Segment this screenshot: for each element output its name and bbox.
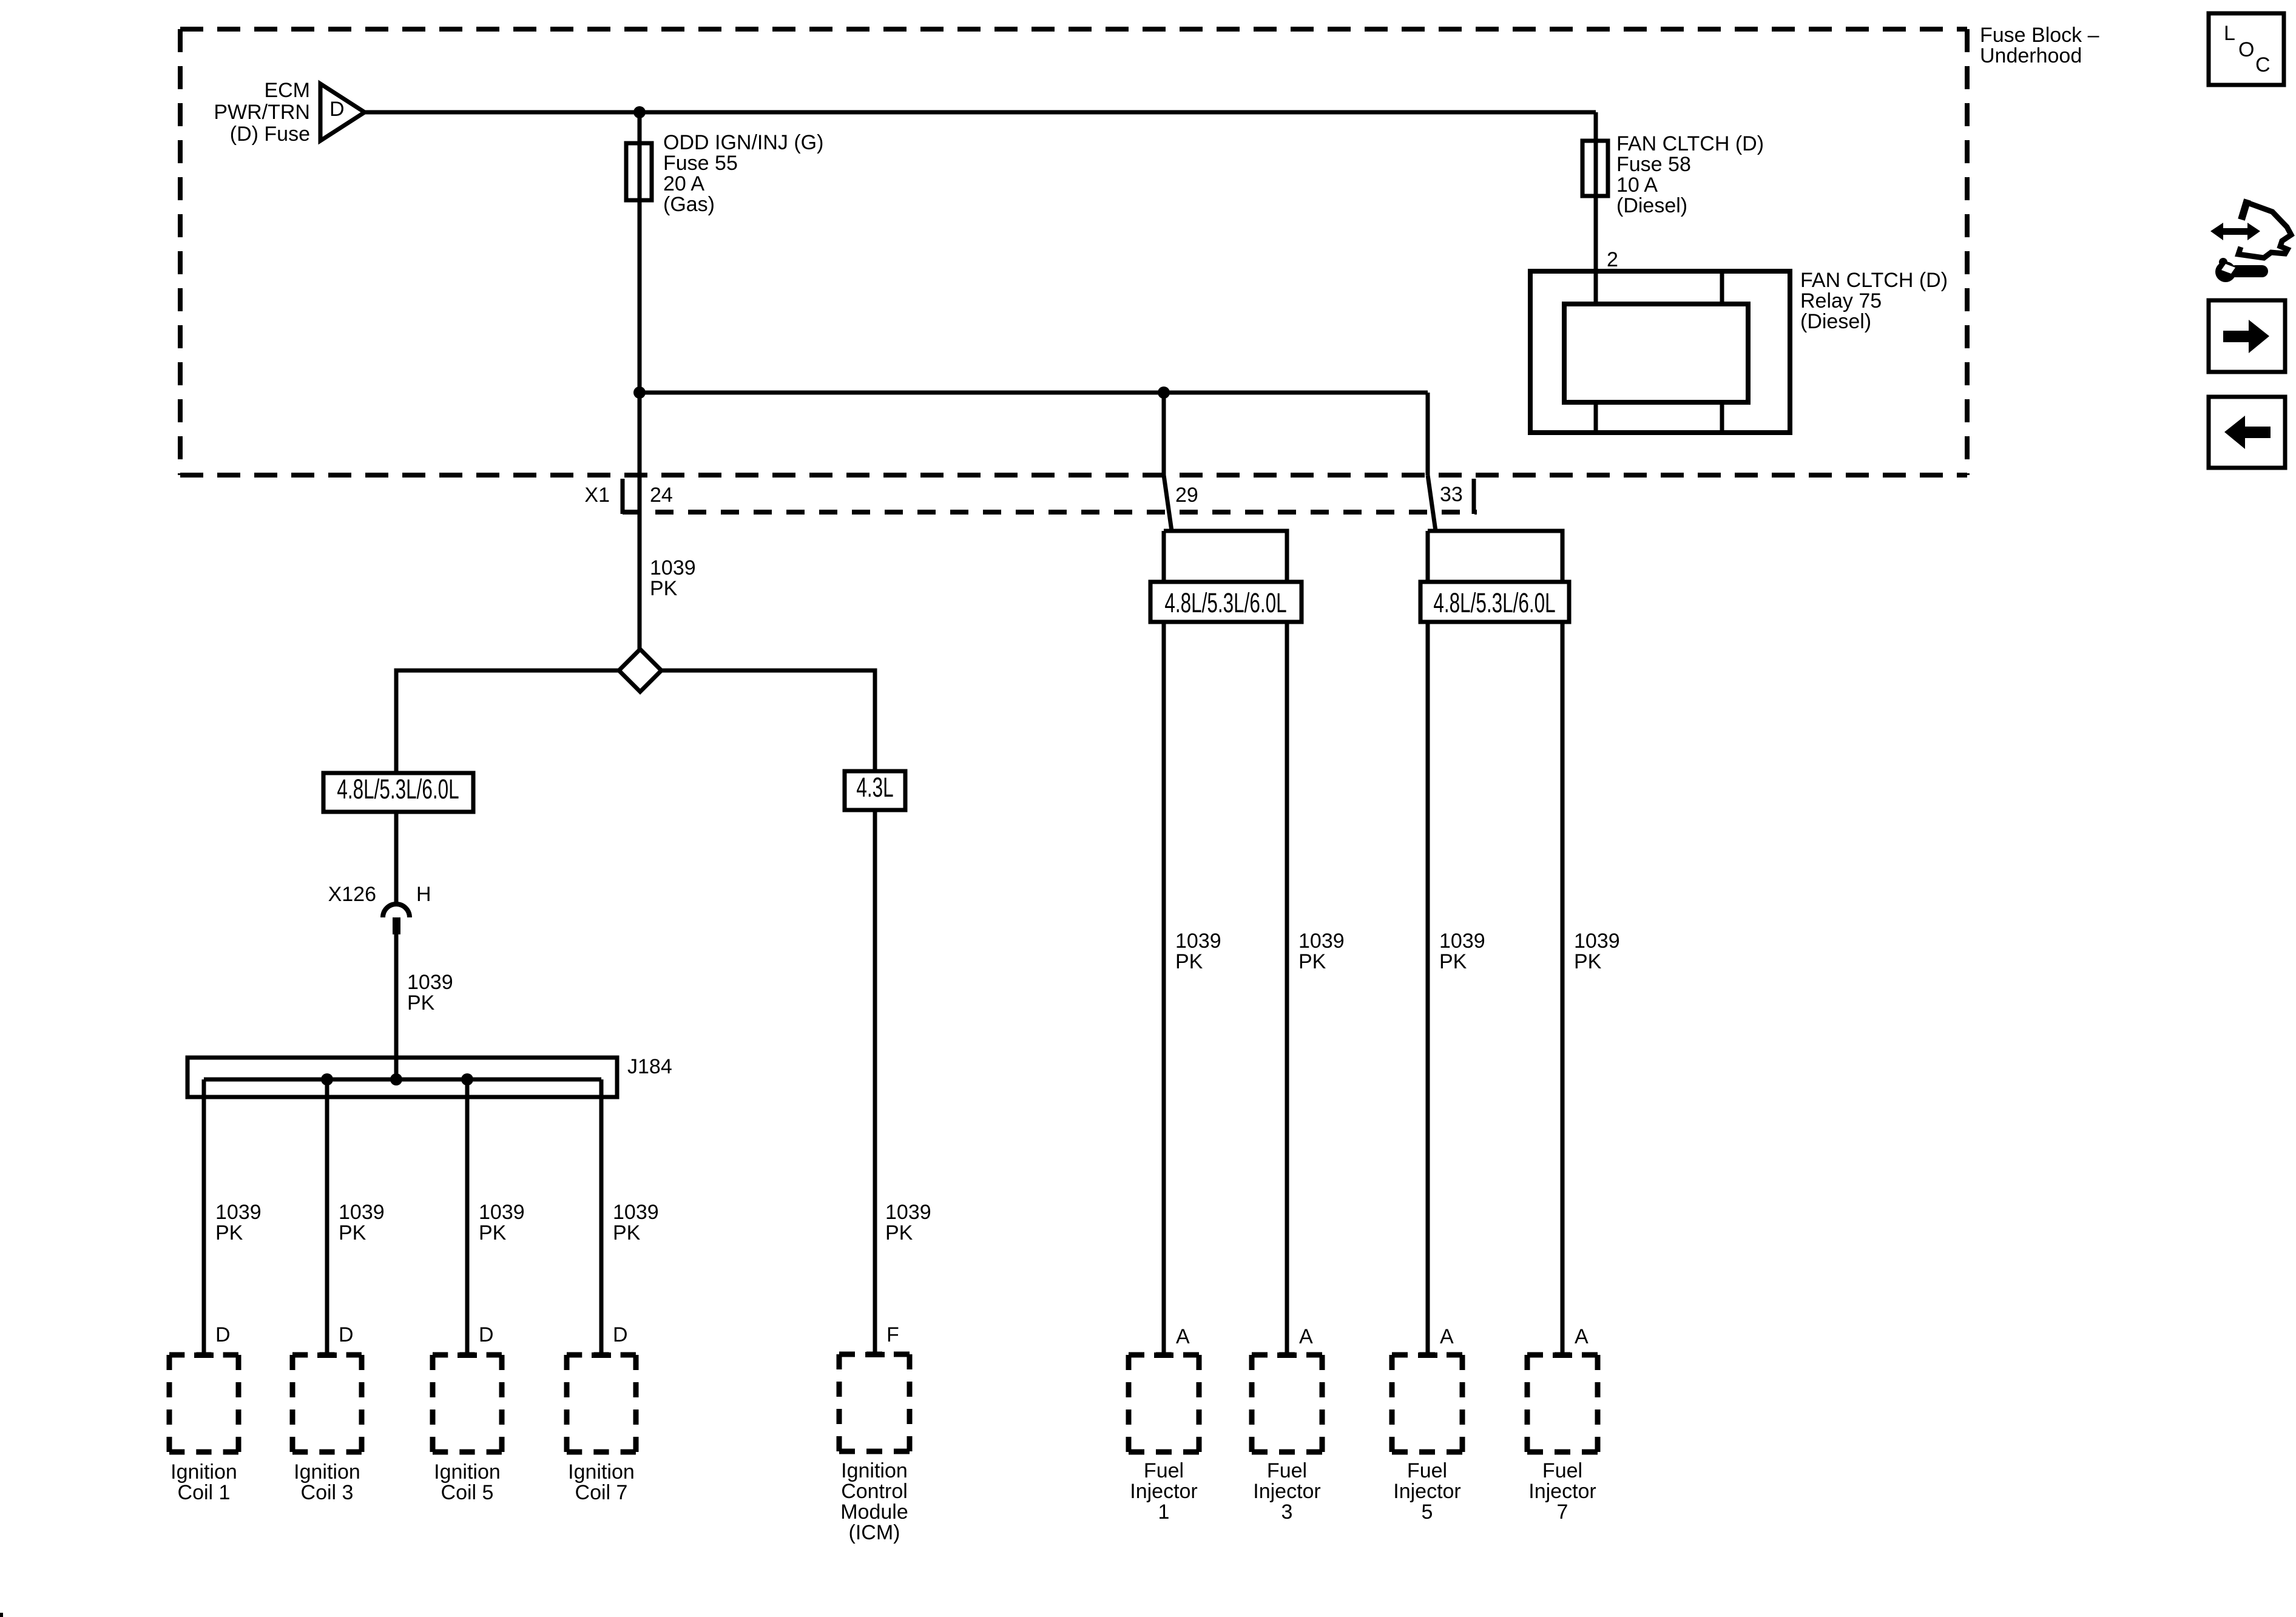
svg-text:10 A: 10 A bbox=[1616, 174, 1658, 197]
svg-text:X126: X126 bbox=[328, 883, 376, 906]
svg-text:24: 24 bbox=[650, 484, 673, 507]
svg-text:Fuel: Fuel bbox=[1407, 1459, 1447, 1482]
svg-text:L: L bbox=[2224, 22, 2235, 45]
svg-text:Control: Control bbox=[841, 1480, 908, 1503]
svg-text:Ignition: Ignition bbox=[434, 1460, 501, 1484]
svg-text:Injector: Injector bbox=[1528, 1480, 1596, 1503]
svg-text:Fuse Block –: Fuse Block – bbox=[1980, 24, 2099, 47]
svg-text:20 A: 20 A bbox=[663, 172, 704, 195]
svg-text:C: C bbox=[2255, 53, 2271, 76]
wire: down through fuse 55 bbox=[638, 112, 642, 393]
svg-text:O: O bbox=[2238, 38, 2254, 61]
engine option box 4.8L/5.3L/6.0L (inj 1/3) bbox=[1150, 582, 1302, 622]
ignition coil 5 component box bbox=[433, 1355, 502, 1452]
svg-text:1039: 1039 bbox=[407, 971, 453, 994]
svg-text:(D) Fuse: (D) Fuse bbox=[230, 123, 310, 146]
svg-text:Underhood: Underhood bbox=[1980, 44, 2082, 67]
svg-text:2: 2 bbox=[1607, 248, 1618, 271]
svg-text:Module: Module bbox=[840, 1501, 908, 1524]
wire: 4.3L to ICM, 1039 PK bbox=[873, 810, 877, 1354]
svg-text:FAN CLTCH (D): FAN CLTCH (D) bbox=[1616, 132, 1764, 155]
svg-text:3: 3 bbox=[1281, 1501, 1293, 1524]
ignition coil 7 component box bbox=[567, 1355, 636, 1452]
fuse block underhood dashed border bbox=[180, 29, 1967, 475]
svg-text:PK: PK bbox=[613, 1221, 641, 1244]
ignition control module component box bbox=[839, 1354, 910, 1451]
svg-text:PK: PK bbox=[1574, 950, 1602, 973]
wire terminal bars bbox=[194, 1352, 214, 1358]
wire: diamond to 4.3L ICM branch bbox=[661, 670, 875, 771]
svg-text:(Diesel): (Diesel) bbox=[1800, 310, 1871, 333]
svg-text:PK: PK bbox=[1175, 950, 1203, 973]
ignition coil 3 component box bbox=[292, 1355, 362, 1452]
X1 tick left bbox=[621, 479, 625, 514]
junction dot lower tap bbox=[633, 387, 646, 399]
wire: box to X126 bbox=[394, 812, 399, 903]
wire: pin 29 to fuel injector 1 bbox=[1162, 393, 1166, 475]
svg-text:D: D bbox=[613, 1323, 628, 1346]
fuel injector 7 component box bbox=[1527, 1355, 1598, 1452]
relay 75 coil inner box bbox=[1564, 304, 1748, 402]
svg-text:5: 5 bbox=[1422, 1501, 1433, 1524]
LOC icon box bbox=[2209, 13, 2284, 85]
svg-text:1039: 1039 bbox=[339, 1201, 385, 1224]
svg-text:Coil 7: Coil 7 bbox=[575, 1481, 628, 1504]
service/powertrain icon bbox=[2210, 223, 2260, 240]
svg-text:1039: 1039 bbox=[613, 1201, 659, 1224]
svg-text:D: D bbox=[339, 1323, 354, 1346]
connector X126 (inline) bbox=[383, 904, 410, 917]
svg-text:A: A bbox=[1440, 1325, 1454, 1348]
svg-text:Fuse 55: Fuse 55 bbox=[663, 152, 738, 175]
splice diamond bbox=[619, 649, 661, 692]
svg-text:D: D bbox=[215, 1323, 231, 1346]
forward arrow icon box bbox=[2209, 300, 2285, 372]
ignition coil 1 component box bbox=[169, 1355, 238, 1452]
wire: branch to fuel injector 3 bbox=[1164, 531, 1287, 1355]
fuel injector 1 component box bbox=[1129, 1355, 1199, 1452]
wire: J184 to ignition coil 3, 1039 PK bbox=[325, 1079, 329, 1355]
X1 connector short dashed line bbox=[623, 510, 1477, 515]
svg-text:PK: PK bbox=[1439, 950, 1467, 973]
svg-text:PK: PK bbox=[339, 1221, 366, 1244]
wire: X126 to J184, 1039 PK bbox=[394, 934, 399, 1079]
svg-text:J184: J184 bbox=[627, 1055, 672, 1078]
svg-text:F: F bbox=[886, 1323, 899, 1346]
svg-text:PK: PK bbox=[650, 577, 678, 600]
relay stub top right bbox=[1720, 271, 1724, 304]
wire: J184 to ignition coil 1, 1039 PK bbox=[202, 1079, 206, 1355]
fuel injector 5 component box bbox=[1392, 1355, 1462, 1452]
svg-text:1039: 1039 bbox=[1175, 930, 1221, 953]
svg-text:4.8L/5.3L/6.0L: 4.8L/5.3L/6.0L bbox=[337, 775, 459, 805]
svg-text:Ignition: Ignition bbox=[171, 1460, 237, 1484]
svg-text:4.8L/5.3L/6.0L: 4.8L/5.3L/6.0L bbox=[1164, 589, 1286, 619]
connector jog pin 29 bbox=[1164, 475, 1172, 531]
svg-text:PK: PK bbox=[407, 991, 435, 1014]
svg-text:1039: 1039 bbox=[215, 1201, 262, 1224]
J184 bus bar bbox=[204, 1078, 601, 1082]
svg-text:H: H bbox=[416, 883, 431, 906]
svg-text:Fuse 58: Fuse 58 bbox=[1616, 153, 1691, 176]
svg-text:Coil 5: Coil 5 bbox=[441, 1481, 494, 1504]
svg-text:PK: PK bbox=[215, 1221, 243, 1244]
svg-text:29: 29 bbox=[1175, 484, 1198, 507]
svg-text:1039: 1039 bbox=[479, 1201, 525, 1224]
fuse 55 bbox=[626, 143, 652, 200]
wire: diamond to 4.8L/5.3L/6.0L coil branch bbox=[396, 670, 619, 773]
svg-text:Fuel: Fuel bbox=[1144, 1459, 1184, 1482]
wire: pin 33 to fuel injector 5 bbox=[1426, 393, 1430, 475]
wire: J184 to ignition coil 5, 1039 PK bbox=[465, 1079, 470, 1355]
svg-text:Ignition: Ignition bbox=[841, 1459, 908, 1482]
svg-text:ODD IGN/INJ (G): ODD IGN/INJ (G) bbox=[663, 131, 823, 154]
wire: ECM fuse feed to fan clutch fuse bbox=[365, 110, 1596, 115]
svg-text:Injector: Injector bbox=[1393, 1480, 1461, 1503]
wire: branch to fuel injector 7 bbox=[1428, 531, 1562, 1355]
svg-text:4.8L/5.3L/6.0L: 4.8L/5.3L/6.0L bbox=[1433, 589, 1555, 619]
junction dot at fuse 55 tap bbox=[633, 106, 646, 118]
svg-text:Fuel: Fuel bbox=[1267, 1459, 1307, 1482]
svg-text:Coil 1: Coil 1 bbox=[178, 1481, 231, 1504]
svg-text:Injector: Injector bbox=[1253, 1480, 1321, 1503]
svg-text:FAN CLTCH (D): FAN CLTCH (D) bbox=[1800, 269, 1948, 292]
svg-text:1: 1 bbox=[1158, 1501, 1170, 1524]
svg-text:Coil 3: Coil 3 bbox=[301, 1481, 354, 1504]
relay stub bottom right bbox=[1720, 402, 1724, 433]
engine option box 4.8L/5.3L/6.0L (inj 5/7) bbox=[1420, 582, 1569, 622]
svg-text:7: 7 bbox=[1557, 1501, 1568, 1524]
svg-text:1039: 1039 bbox=[1298, 930, 1345, 953]
svg-text:1039: 1039 bbox=[1439, 930, 1485, 953]
wire: J184 to ignition coil 7, 1039 PK bbox=[599, 1079, 604, 1355]
svg-text:D: D bbox=[329, 98, 345, 121]
svg-text:X1: X1 bbox=[584, 484, 610, 507]
svg-text:Ignition: Ignition bbox=[294, 1460, 360, 1484]
relay 75 fan clutch outer box bbox=[1530, 271, 1790, 433]
wire: pin 24 to splice diamond, 1039 PK bbox=[638, 393, 642, 650]
fuel injector 3 component box bbox=[1252, 1355, 1322, 1452]
back arrow icon box bbox=[2209, 397, 2285, 468]
engine option box 4.8L/5.3L/6.0L (coils) bbox=[323, 773, 473, 812]
junction dots on bus bbox=[321, 1073, 333, 1085]
relay stub bottom left bbox=[1594, 402, 1598, 433]
svg-text:1039: 1039 bbox=[1574, 930, 1620, 953]
svg-text:PWR/TRN: PWR/TRN bbox=[214, 101, 310, 124]
svg-text:Relay 75: Relay 75 bbox=[1800, 289, 1882, 312]
svg-text:A: A bbox=[1299, 1325, 1313, 1348]
svg-text:Ignition: Ignition bbox=[568, 1460, 635, 1484]
svg-text:1039: 1039 bbox=[885, 1201, 931, 1224]
svg-text:Fuel: Fuel bbox=[1542, 1459, 1582, 1482]
page artifact dot bbox=[0, 1613, 3, 1617]
connector jog pin 33 bbox=[1428, 475, 1436, 531]
svg-text:1039: 1039 bbox=[650, 556, 696, 579]
X1 tick right bbox=[1472, 479, 1476, 514]
svg-text:(Diesel): (Diesel) bbox=[1616, 194, 1687, 217]
svg-text:33: 33 bbox=[1440, 483, 1463, 506]
svg-text:(ICM): (ICM) bbox=[849, 1521, 900, 1544]
svg-text:(Gas): (Gas) bbox=[663, 193, 715, 216]
engine option box 4.3L bbox=[845, 771, 905, 810]
fuse 58 bbox=[1582, 141, 1608, 196]
wire: horizontal feed to injector branches bbox=[640, 391, 1428, 395]
svg-text:D: D bbox=[479, 1323, 494, 1346]
svg-text:Injector: Injector bbox=[1130, 1480, 1198, 1503]
svg-text:ECM: ECM bbox=[264, 79, 310, 102]
svg-text:A: A bbox=[1176, 1325, 1190, 1348]
junction block J184 bbox=[187, 1058, 617, 1097]
svg-text:PK: PK bbox=[479, 1221, 507, 1244]
svg-text:A: A bbox=[1575, 1325, 1589, 1348]
connector triangle D (ECM PWR/TRN fuse feed) bbox=[320, 84, 365, 141]
junction dot injector branch 29 bbox=[1158, 387, 1170, 399]
svg-text:PK: PK bbox=[885, 1221, 913, 1244]
svg-text:4.3L: 4.3L bbox=[856, 773, 893, 803]
svg-text:PK: PK bbox=[1298, 950, 1326, 973]
wire: to fan clutch fuse 58 and relay bbox=[1594, 112, 1598, 304]
